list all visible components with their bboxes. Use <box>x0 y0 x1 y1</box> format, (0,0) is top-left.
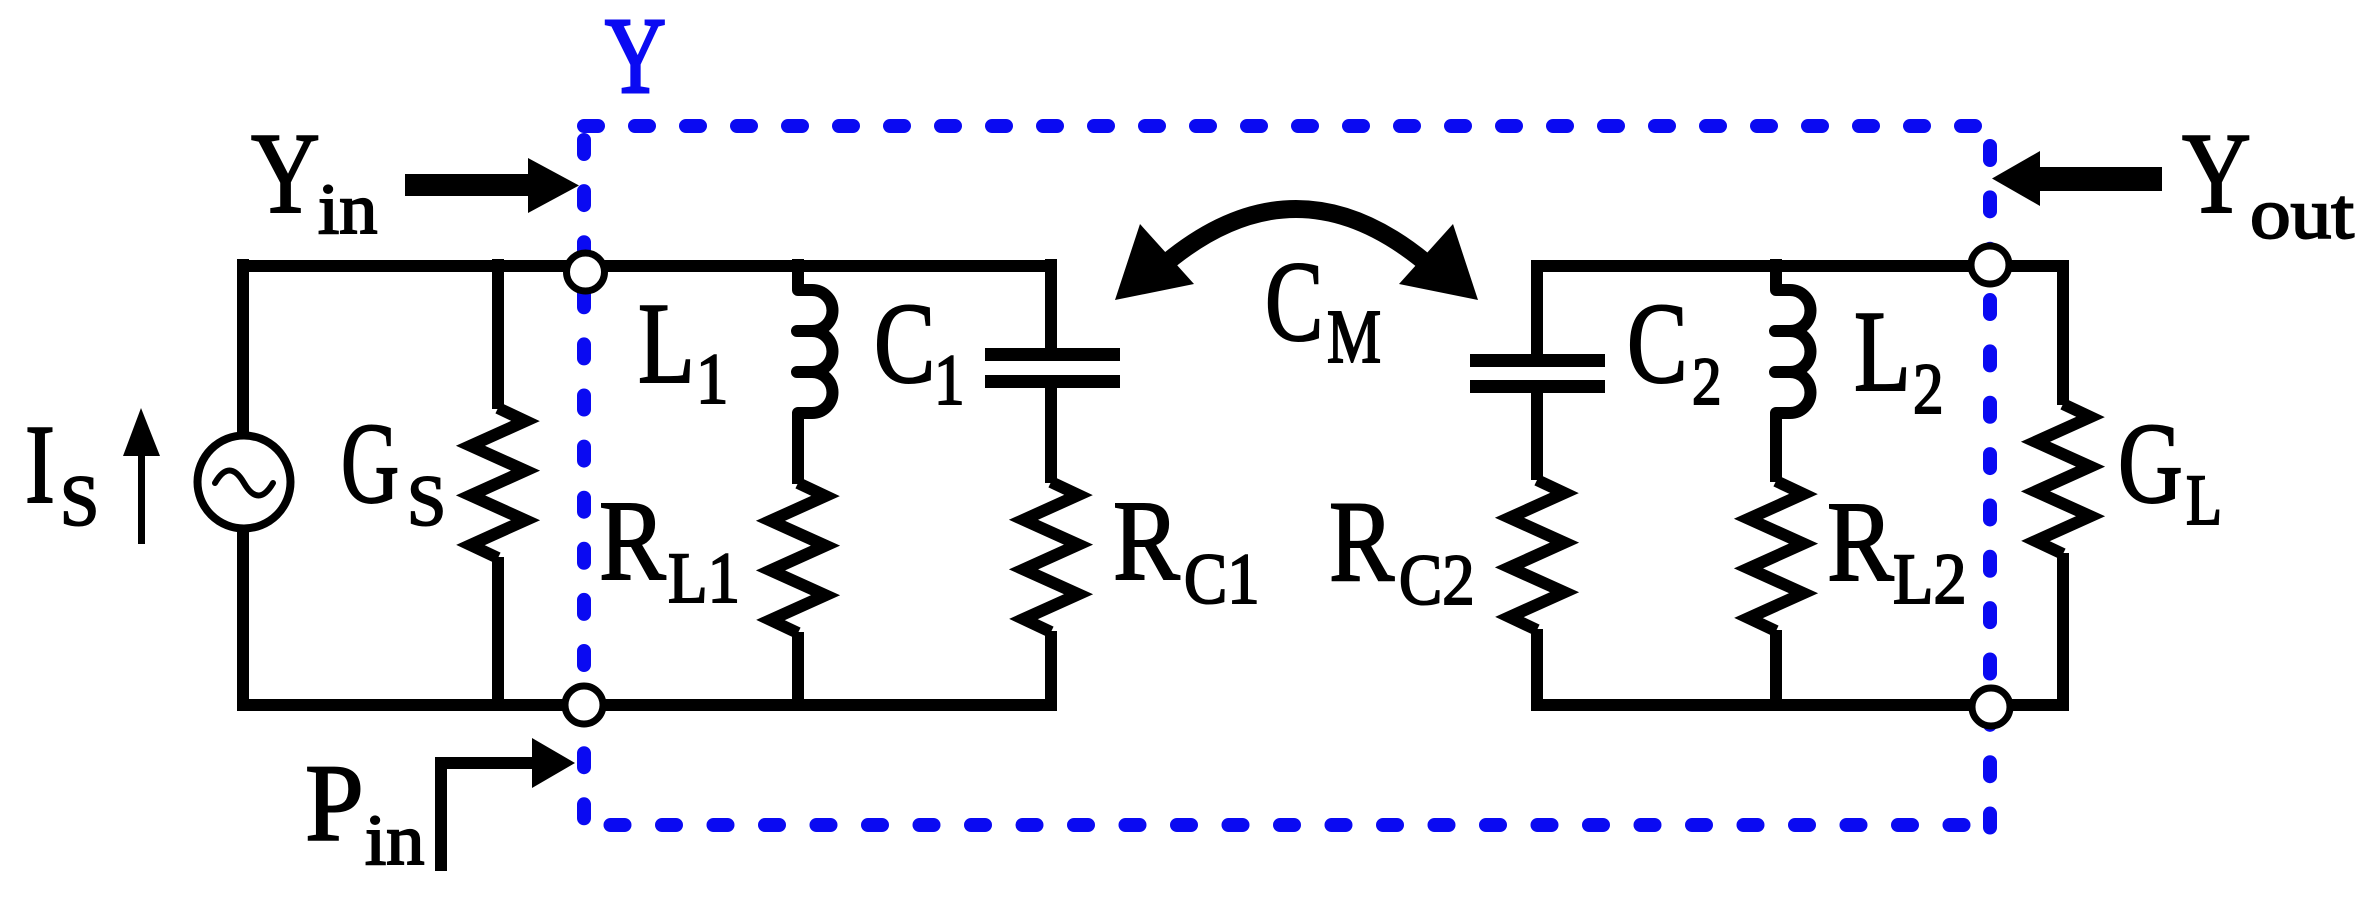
label R_C2 <box>1329 479 1475 620</box>
arrow P_in (bent, points right at input port) <box>441 763 532 871</box>
label L2 <box>1854 288 1944 429</box>
wire tank2 bottom rail with corners <box>1537 553 2063 705</box>
wire L2 mid stem (coil to R_L2) <box>1770 413 1782 482</box>
wire G_S stem top <box>492 259 504 409</box>
resistor R_C1 <box>1024 482 1079 632</box>
wire left rail upper (source to top wire) <box>237 259 249 437</box>
arrow I_S current direction (up) <box>123 408 160 544</box>
label L1 <box>638 280 728 419</box>
svg-text:1: 1 <box>934 340 965 420</box>
svg-text:1: 1 <box>696 339 728 419</box>
wire C1 stem top <box>1045 259 1057 348</box>
svg-text:C: C <box>1265 239 1323 366</box>
resistor R_C2 <box>1510 480 1565 630</box>
wire C2 mid stem (C2 to R_C2) <box>1531 393 1543 480</box>
svg-text:G: G <box>341 401 399 527</box>
svg-text:C2: C2 <box>1399 540 1475 620</box>
label R_C1 <box>1113 478 1260 619</box>
capacitor C1 plates <box>985 355 1120 382</box>
svg-text:L: L <box>2186 461 2222 541</box>
svg-text:L1: L1 <box>668 538 740 618</box>
svg-text:S: S <box>60 461 99 541</box>
label G_L <box>2118 401 2222 541</box>
wire L2 stem top <box>1770 259 1782 289</box>
label C_M <box>1265 239 1381 379</box>
wire L2 stem bottom <box>1770 630 1782 711</box>
arrow C_M coupling (curved, double-headed) <box>1160 209 1432 268</box>
label G_S <box>341 401 446 541</box>
resistor R_L1 <box>771 483 826 633</box>
svg-text:C: C <box>1627 281 1688 408</box>
svg-text:Y: Y <box>2182 110 2251 237</box>
svg-text:R: R <box>1113 478 1180 605</box>
wire L1 mid stem (coil to R_L1) <box>792 413 804 484</box>
svg-text:Y: Y <box>605 0 666 115</box>
svg-text:S: S <box>407 461 446 541</box>
blue dashed box: bottom edge <box>611 818 1991 832</box>
arrow Y_out (points left into network) <box>1992 151 2162 206</box>
label C1 <box>874 279 965 420</box>
node output top terminal circle <box>1971 246 2009 284</box>
blue dashed box: top edge of two-port Y <box>584 119 1990 133</box>
resistor G_S <box>471 408 526 558</box>
label I_S <box>25 403 99 542</box>
label R_L2 <box>1827 479 1967 619</box>
resistor G_L <box>2036 404 2091 554</box>
inductor L1 coil <box>797 290 833 413</box>
label Y_in <box>251 110 377 250</box>
blue dashed box: right edge <box>1983 146 1997 828</box>
wire top-left: source loop + tank1 top rail <box>237 260 1051 272</box>
resistor R_L2 <box>1749 481 1804 631</box>
label R_L1 <box>599 478 740 618</box>
svg-text:in: in <box>318 170 377 250</box>
blue dashed box: left edge <box>577 140 591 825</box>
svg-text:M: M <box>1327 295 1381 379</box>
svg-text:G: G <box>2118 401 2183 528</box>
label C2 <box>1627 281 1722 419</box>
svg-text:R: R <box>599 478 666 605</box>
wire C1 stem bottom <box>1045 631 1057 711</box>
current source I_S circle <box>198 436 291 529</box>
svg-text:in: in <box>365 801 424 881</box>
label P_in <box>305 743 424 880</box>
svg-text:2: 2 <box>1913 349 1944 429</box>
svg-text:R: R <box>1329 479 1395 606</box>
svg-text:L: L <box>1854 288 1911 415</box>
label Y_out <box>2182 110 2354 254</box>
wire L1 stem top <box>792 259 804 289</box>
svg-text:C1: C1 <box>1184 539 1260 619</box>
svg-text:R: R <box>1827 479 1894 606</box>
svg-text:P: P <box>305 743 364 864</box>
arrow Y_in (points right into network) <box>405 158 579 213</box>
wire tank2 top rail with corners <box>1537 266 2063 405</box>
svg-text:L2: L2 <box>1893 538 1967 618</box>
svg-text:I: I <box>25 403 55 527</box>
wire left rail lower (source to bottom wire) <box>237 530 249 711</box>
svg-text:Y: Y <box>251 110 320 237</box>
wire C1 mid stem (C1 to R_C1) <box>1045 388 1057 483</box>
capacitor C2 plates <box>1470 361 1605 387</box>
node output bottom terminal circle <box>1972 688 2010 726</box>
svg-text:L: L <box>638 280 695 407</box>
inductor L2 coil <box>1775 290 1810 413</box>
svg-text:2: 2 <box>1692 343 1722 419</box>
node input bottom terminal circle <box>565 686 603 724</box>
wire bottom-left: source loop + tank1 bottom rail <box>237 699 1051 711</box>
node input top terminal circle <box>567 253 605 291</box>
svg-text:C: C <box>874 279 935 407</box>
wire L1 stem bottom <box>792 632 804 711</box>
current source sine wave <box>215 471 273 496</box>
wire G_S stem bottom <box>492 557 504 711</box>
svg-text:out: out <box>2250 174 2354 254</box>
